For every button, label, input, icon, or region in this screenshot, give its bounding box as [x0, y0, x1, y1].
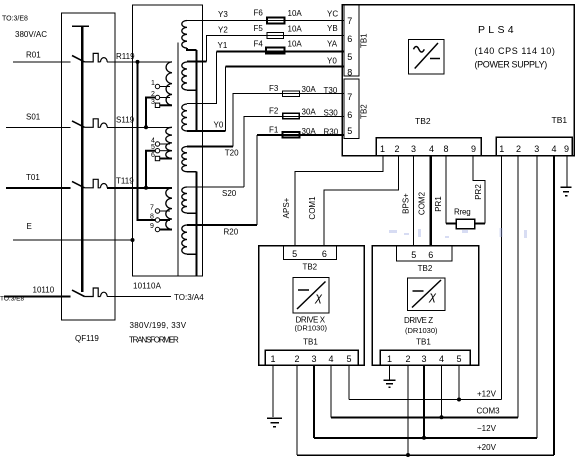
- svg-text:3: 3: [411, 144, 416, 154]
- svg-text:4: 4: [439, 354, 444, 364]
- svg-text:30A: 30A: [302, 108, 317, 117]
- svg-text:TB1: TB1: [360, 33, 369, 48]
- svg-text:7: 7: [347, 16, 352, 26]
- svg-text:1: 1: [151, 80, 155, 87]
- svg-text:COM1: COM1: [308, 196, 317, 220]
- svg-text:F2: F2: [269, 106, 279, 115]
- svg-text:TB2: TB2: [360, 104, 369, 119]
- svg-text:F6: F6: [254, 9, 264, 18]
- svg-text:QF119: QF119: [75, 334, 99, 343]
- svg-text:4: 4: [551, 144, 556, 154]
- svg-text:10A: 10A: [288, 24, 303, 33]
- svg-text:6: 6: [151, 152, 155, 159]
- svg-text:3: 3: [311, 354, 316, 364]
- svg-text:5: 5: [292, 249, 297, 259]
- svg-text:(DR1030): (DR1030): [295, 324, 328, 333]
- svg-text:Y0: Y0: [214, 121, 224, 130]
- svg-text:TB2: TB2: [415, 116, 431, 126]
- svg-text:PR2: PR2: [474, 184, 483, 200]
- svg-text:9: 9: [150, 223, 154, 230]
- svg-text:4: 4: [328, 354, 333, 364]
- svg-text:TB1: TB1: [303, 338, 318, 347]
- svg-text:5: 5: [411, 250, 416, 260]
- svg-text:S20: S20: [222, 189, 237, 198]
- svg-text:4: 4: [429, 144, 434, 154]
- svg-text:30A: 30A: [302, 127, 317, 136]
- svg-text:S119: S119: [116, 116, 135, 125]
- svg-text:5: 5: [151, 144, 155, 151]
- svg-text:6: 6: [322, 249, 327, 259]
- svg-text:F1: F1: [269, 126, 279, 135]
- svg-text:2: 2: [394, 144, 399, 154]
- svg-text:R01: R01: [26, 51, 41, 60]
- svg-text:(POWER SUPPLY): (POWER SUPPLY): [475, 60, 548, 70]
- svg-text:2: 2: [405, 354, 410, 364]
- svg-text:6: 6: [347, 110, 352, 120]
- svg-text:R30: R30: [324, 128, 339, 137]
- svg-text:1: 1: [499, 144, 504, 154]
- svg-text:T30: T30: [324, 86, 338, 95]
- svg-text:YC: YC: [327, 10, 338, 19]
- svg-text:R20: R20: [224, 228, 239, 237]
- svg-text:F5: F5: [254, 24, 264, 33]
- svg-text:(140 CPS 114 10): (140 CPS 114 10): [475, 46, 556, 56]
- svg-text:+12V: +12V: [477, 390, 497, 399]
- svg-text:7: 7: [347, 92, 352, 102]
- svg-text:9: 9: [471, 144, 476, 154]
- svg-text:7: 7: [150, 205, 154, 212]
- svg-text:R119: R119: [116, 52, 135, 61]
- svg-text:S01: S01: [26, 113, 41, 122]
- svg-text:Y1: Y1: [218, 41, 228, 50]
- svg-text:BPS+: BPS+: [402, 193, 411, 214]
- svg-text:8: 8: [150, 214, 154, 221]
- svg-text:T119: T119: [116, 177, 134, 186]
- svg-text:5: 5: [346, 354, 351, 364]
- svg-text:COM3: COM3: [477, 407, 501, 416]
- svg-text:Rreg: Rreg: [454, 208, 471, 217]
- svg-text:1: 1: [387, 354, 392, 364]
- svg-text:TO:3/A4: TO:3/A4: [174, 293, 204, 302]
- svg-text:10A: 10A: [288, 9, 303, 18]
- svg-text:1: 1: [380, 144, 385, 154]
- svg-text:3: 3: [421, 354, 426, 364]
- svg-text:8: 8: [347, 68, 352, 78]
- svg-text:E: E: [27, 222, 32, 231]
- svg-text:TRANSFORMER: TRANSFORMER: [129, 336, 179, 345]
- svg-text:30A: 30A: [302, 85, 317, 94]
- svg-text:6: 6: [428, 250, 433, 260]
- svg-text:T20: T20: [225, 149, 239, 158]
- svg-text:χ: χ: [315, 290, 323, 304]
- svg-text:10110A: 10110A: [133, 282, 162, 291]
- svg-text:TO:3/E8: TO:3/E8: [0, 296, 24, 303]
- svg-text:3: 3: [151, 99, 155, 106]
- svg-text:3: 3: [534, 144, 539, 154]
- svg-text:2: 2: [151, 91, 155, 98]
- svg-text:−12V: −12V: [477, 424, 497, 433]
- svg-text:5: 5: [347, 52, 352, 62]
- svg-text:5: 5: [347, 126, 352, 136]
- svg-text:9: 9: [564, 144, 569, 154]
- svg-text:F3: F3: [269, 84, 279, 93]
- svg-text:Y3: Y3: [218, 10, 228, 19]
- svg-text:6: 6: [347, 34, 352, 44]
- svg-text:TB1: TB1: [416, 338, 431, 347]
- svg-text:380V/AC: 380V/AC: [15, 30, 47, 39]
- svg-text:T01: T01: [26, 173, 40, 182]
- svg-text:PLS4: PLS4: [478, 24, 517, 36]
- svg-text:COM2: COM2: [418, 191, 427, 215]
- svg-text:Y0: Y0: [327, 57, 337, 66]
- svg-text:5: 5: [456, 354, 461, 364]
- svg-text:10110: 10110: [33, 286, 55, 295]
- svg-text:TB2: TB2: [302, 263, 317, 272]
- svg-text:TB1: TB1: [552, 115, 568, 125]
- svg-text:S30: S30: [324, 109, 339, 118]
- svg-text:+20V: +20V: [477, 443, 497, 452]
- svg-text:TB2: TB2: [418, 264, 433, 273]
- svg-text:8: 8: [443, 144, 448, 154]
- svg-text:1: 1: [270, 354, 275, 364]
- svg-text:(DR1030): (DR1030): [405, 326, 438, 335]
- svg-text:χ: χ: [429, 289, 437, 303]
- svg-text:APS+: APS+: [282, 197, 291, 218]
- svg-text:2: 2: [294, 354, 299, 364]
- svg-text:380V/199, 33V: 380V/199, 33V: [130, 321, 187, 330]
- svg-text:F4: F4: [254, 40, 264, 49]
- svg-text:DRIVE Z: DRIVE Z: [404, 316, 433, 325]
- svg-text:2: 2: [516, 144, 521, 154]
- svg-text:YB: YB: [327, 24, 338, 33]
- svg-text:TO:3/E8: TO:3/E8: [2, 16, 28, 23]
- svg-text:Y2: Y2: [218, 26, 228, 35]
- svg-text:YA: YA: [327, 40, 338, 49]
- svg-text:10A: 10A: [288, 39, 303, 48]
- svg-text:PR1: PR1: [434, 196, 443, 212]
